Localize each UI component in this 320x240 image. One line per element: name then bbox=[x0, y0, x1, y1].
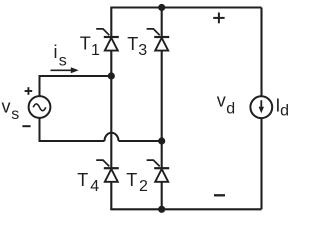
ac source vs bbox=[29, 96, 51, 118]
thyristor T4 bbox=[96, 160, 119, 182]
label T2 bbox=[126, 170, 148, 195]
label T4 bbox=[77, 170, 99, 195]
wire top rail bbox=[110, 6, 261, 8]
wire source bottom (to crossover) bbox=[40, 117, 105, 141]
svg-text:v: v bbox=[217, 90, 226, 110]
node bottom bbox=[158, 206, 165, 213]
label vs bbox=[2, 96, 20, 123]
wire source top (to left leg midpoint) bbox=[40, 76, 111, 97]
plus mark dc side bbox=[213, 13, 224, 24]
wire bottom rail bbox=[110, 208, 261, 210]
minus mark dc side bbox=[214, 194, 225, 196]
node left leg midpoint bbox=[108, 72, 115, 79]
node top (T3 anode to + rail) bbox=[158, 4, 165, 11]
label T3 bbox=[127, 34, 147, 59]
thyristor T2 bbox=[147, 160, 170, 182]
label Id bbox=[275, 96, 289, 120]
node right leg midpoint bbox=[158, 137, 165, 144]
wire right bridge leg bbox=[161, 8, 163, 210]
svg-text:T: T bbox=[80, 33, 91, 53]
svg-text:T: T bbox=[127, 34, 138, 54]
plus mark at source bbox=[25, 87, 33, 95]
label T1 bbox=[80, 33, 100, 59]
svg-text:T: T bbox=[77, 170, 88, 190]
minus mark at source bbox=[22, 125, 30, 127]
svg-text:s: s bbox=[11, 106, 19, 123]
svg-text:s: s bbox=[59, 53, 67, 70]
svg-text:4: 4 bbox=[90, 178, 99, 195]
svg-text:1: 1 bbox=[91, 42, 100, 59]
svg-text:d: d bbox=[226, 101, 235, 118]
wire crossover hop bbox=[105, 133, 119, 141]
thyristor T1 bbox=[96, 29, 119, 51]
svg-text:3: 3 bbox=[138, 42, 147, 59]
label vd bbox=[217, 90, 235, 117]
wire hop to right leg midpoint bbox=[119, 140, 162, 142]
wire left bridge leg bbox=[110, 8, 112, 210]
svg-text:v: v bbox=[2, 96, 11, 116]
svg-text:i: i bbox=[54, 42, 58, 62]
is arrow bbox=[51, 67, 79, 73]
thyristor T3 bbox=[147, 29, 170, 51]
svg-text:2: 2 bbox=[139, 178, 148, 195]
label is bbox=[54, 42, 67, 70]
current source Id bbox=[250, 96, 272, 118]
svg-text:T: T bbox=[126, 170, 137, 190]
wire right branch bbox=[260, 8, 262, 210]
svg-text:d: d bbox=[280, 103, 289, 120]
